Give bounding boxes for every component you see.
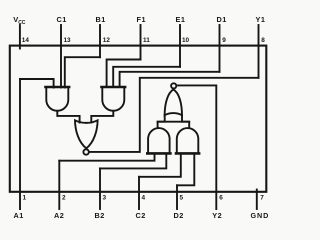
label A1 pin 1 [14, 195, 27, 220]
label C1 pin 13 [57, 15, 72, 44]
label D1 pin 9 [217, 15, 227, 44]
svg-text:E1: E1 [176, 15, 186, 24]
svg-text:1: 1 [23, 195, 27, 202]
pin 4 C2 lead / wire C2 riser [138, 177, 140, 209]
pin 14 VCC lead [19, 25, 21, 49]
svg-text:12: 12 [103, 37, 111, 44]
pin 10 E1 lead [179, 25, 181, 67]
svg-text:6: 6 [219, 195, 223, 202]
svg-text:2: 2 [62, 195, 66, 202]
AND gate 2a (inputs A2,B2) pointing up [148, 128, 170, 153]
label VCC pin 14 [13, 15, 29, 44]
label B1 pin 12 [96, 15, 111, 44]
pin 11 F1 lead [140, 25, 142, 60]
label GND pin 7 [251, 195, 270, 220]
NOR1 output bubble [83, 149, 88, 154]
svg-text:D2: D2 [174, 211, 184, 220]
svg-text:C1: C1 [57, 15, 67, 24]
pin 13 C1 lead / wire C1 to AND1a [60, 25, 62, 88]
wire D1 horizontal [120, 72, 220, 87]
svg-text:F1: F1 [137, 15, 147, 24]
label B2 pin 3 [95, 195, 107, 220]
pin 2 A2 lead / wire A2 riser [58, 161, 60, 209]
label Y2 pin 6 [212, 195, 223, 220]
svg-text:A1: A1 [14, 211, 24, 220]
label A2 pin 2 [54, 195, 66, 220]
svg-text:13: 13 [64, 37, 72, 44]
IC body outline U1 [10, 46, 267, 192]
pin 8 Y1 lead [258, 25, 260, 78]
label E1 pin 10 [176, 15, 190, 44]
svg-text:GND: GND [251, 211, 270, 220]
NOR gate 2 (output Y2) pointing up [165, 89, 182, 115]
NOR2 output bubble [171, 83, 176, 88]
svg-text:Y2: Y2 [212, 211, 222, 220]
svg-text:11: 11 [143, 37, 150, 44]
wire D2 horizontal [177, 154, 194, 186]
NOR gate 1 (output Y1) pointing down [75, 120, 98, 148]
wire AND1a output to NOR1 input [57, 111, 79, 123]
svg-text:8: 8 [261, 37, 265, 44]
label Y1 pin 8 [256, 15, 266, 44]
label F1 pin 11 [137, 15, 151, 44]
svg-text:B2: B2 [95, 211, 105, 220]
svg-text:4: 4 [142, 195, 146, 202]
wire F1 horizontal [107, 60, 141, 88]
wire A1 horizontal [20, 79, 54, 88]
wire AND1b output to NOR1 input [91, 111, 113, 123]
pin 5 D2 lead / wire D2 riser [176, 185, 178, 209]
wire B2 horizontal [100, 154, 166, 169]
svg-text:9: 9 [222, 37, 226, 44]
pin 6 Y2 lead / wire Y2 net from NOR2 output [177, 85, 216, 209]
svg-text:10: 10 [182, 37, 190, 44]
AND gate 1b (inputs D1,E1,F1) pointing down [102, 87, 124, 111]
wire A2 horizontal [59, 154, 154, 161]
svg-text:D1: D1 [217, 15, 227, 24]
pin 3 B2 lead / wire B2 riser [99, 168, 101, 209]
pin 7 GND lead [256, 190, 258, 210]
wire B1 horizontal [65, 57, 100, 87]
wire NOR2 input connector crossbar to AND2a/AND2b outputs [158, 115, 165, 127]
wire C2 horizontal [139, 154, 181, 177]
label C2 pin 4 [136, 195, 146, 220]
AND gate 2b (inputs C2,D2) pointing up [177, 128, 199, 153]
wire E1 horizontal [113, 67, 180, 87]
label D2 pin 5 [174, 195, 184, 220]
svg-text:14: 14 [22, 37, 30, 44]
AND gate 1a (inputs A1,B1,C1) pointing down [46, 87, 68, 111]
svg-text:A2: A2 [54, 211, 64, 220]
pin 12 B1 lead [99, 25, 101, 57]
svg-text:B1: B1 [96, 15, 106, 24]
svg-text:3: 3 [103, 195, 107, 202]
pin 9 D1 lead [219, 25, 221, 72]
wire Y1 net from NOR1 output to pin 8 [89, 78, 258, 152]
svg-text:Y1: Y1 [256, 15, 266, 24]
svg-text:5: 5 [180, 195, 184, 202]
svg-text:C2: C2 [136, 211, 146, 220]
pin 1 A1 lead / wire A1 riser [19, 79, 21, 209]
svg-text:7: 7 [260, 195, 264, 202]
svg-text:CC: CC [18, 20, 26, 26]
